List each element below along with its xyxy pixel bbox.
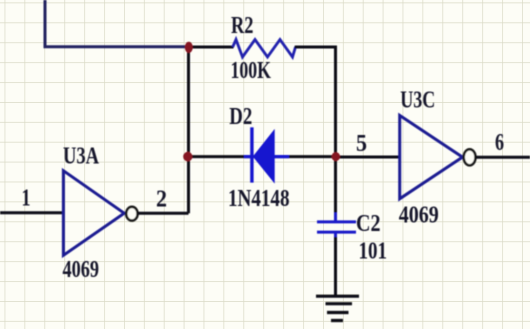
svg-text:1: 1	[22, 185, 31, 211]
wire resistor right to corner and down	[295, 47, 336, 157]
capacitor C2 bottom stub	[334, 234, 337, 239]
svg-text:4069: 4069	[63, 257, 100, 283]
svg-text:U3A: U3A	[63, 143, 100, 169]
svg-text:C2: C2	[356, 211, 381, 237]
diode D2 leads	[244, 155, 289, 158]
wire U3A input	[0, 211, 63, 214]
wire capacitor to ground	[334, 237, 337, 296]
svg-text:D2: D2	[229, 104, 252, 130]
svg-text:4069: 4069	[399, 202, 439, 228]
junction dot node 5 / capacitor top	[332, 152, 340, 161]
inverter U3A bubble	[126, 207, 137, 221]
svg-text:U3C: U3C	[400, 87, 435, 113]
svg-text:100K: 100K	[231, 58, 272, 84]
wire middle horizontal through diode	[188, 155, 336, 158]
resistor R2	[233, 40, 296, 58]
svg-text:5: 5	[356, 131, 367, 157]
junction dot node 2 / diode left	[183, 152, 192, 162]
capacitor C2 plates	[317, 222, 356, 232]
svg-text:6: 6	[495, 130, 504, 156]
wire U3C input	[336, 156, 400, 159]
inverter U3C triangle	[400, 115, 463, 198]
wire top-left vertical	[44, 0, 47, 47]
diode D2 cathode bar	[250, 127, 253, 182]
wire U3A output	[138, 212, 189, 215]
capacitor C2 top stub	[334, 213, 337, 221]
wire U3C output to edge	[476, 156, 530, 159]
ground	[316, 296, 359, 320]
inverter U3C bubble	[464, 149, 476, 165]
junction dot node R2 top	[185, 42, 193, 53]
diode D2 triangle	[253, 130, 274, 182]
svg-text:101: 101	[359, 238, 388, 264]
wire junction to resistor left	[189, 46, 234, 49]
svg-text:R2: R2	[231, 13, 254, 39]
wire top horizontal to junction	[44, 45, 189, 48]
svg-text:1N4148: 1N4148	[228, 186, 290, 212]
wire junction down to capacitor	[334, 157, 337, 214]
wire vertical from junction R down to U3A output level	[187, 47, 190, 214]
svg-text:2: 2	[156, 187, 167, 213]
inverter U3A triangle	[63, 171, 124, 256]
